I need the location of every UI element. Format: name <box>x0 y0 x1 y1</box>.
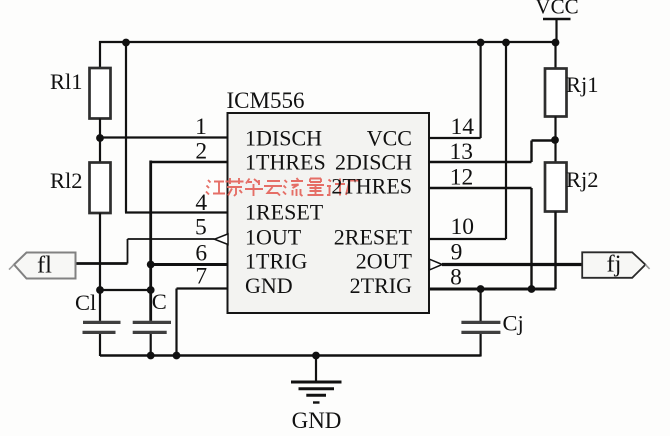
wire pin 10 2RESET <box>429 238 506 240</box>
wire pin10 vertical to rail <box>505 42 507 239</box>
label Cj <box>503 311 524 336</box>
junction dot rail/pin4 <box>122 39 130 47</box>
pin number 12 <box>450 165 474 191</box>
svg-text:1THRES: 1THRES <box>245 150 326 175</box>
wire top VCC rail <box>99 41 557 43</box>
IC U1 ICM556 body <box>228 113 430 313</box>
svg-text:13: 13 <box>450 139 474 165</box>
计 <box>327 179 345 196</box>
svg-text:2DISCH: 2DISCH <box>335 150 412 175</box>
wire pin 6 1TRIG <box>151 263 228 266</box>
pin number 5 <box>195 215 207 241</box>
wire pin 5 1OUT <box>128 238 215 240</box>
流 <box>283 178 303 196</box>
wire pin 13 2DISCH <box>429 161 532 163</box>
junction dot pin7/bottom rail <box>173 352 181 360</box>
wire left branch upper <box>99 41 101 68</box>
wire pin 8 2TRIG <box>429 288 556 291</box>
junction dot VCC rail <box>552 39 560 47</box>
svg-text:Rl2: Rl2 <box>50 168 83 193</box>
svg-text:7: 7 <box>195 264 207 290</box>
wire pin12 vertical down <box>530 188 532 289</box>
svg-text:8: 8 <box>450 264 462 290</box>
junction dot GND symbol/bottom rail <box>312 352 320 360</box>
wire pin 4 1RESET <box>125 211 228 213</box>
svg-text:GND: GND <box>292 408 342 433</box>
华 <box>245 179 263 197</box>
pin number 7 <box>195 264 207 290</box>
svg-text:GND: GND <box>245 273 293 298</box>
wire pin 9 2OUT to fj <box>442 263 583 266</box>
label Rl2 <box>50 168 83 193</box>
junction dot C/bottom rail <box>147 352 155 360</box>
svg-text:Rj2: Rj2 <box>566 167 599 192</box>
power VCC symbol <box>535 0 578 42</box>
svg-text:1RESET: 1RESET <box>245 200 324 225</box>
svg-text:C: C <box>152 289 167 314</box>
svg-text:1TRIG: 1TRIG <box>245 249 307 274</box>
junction dot pin12/pin8 <box>528 285 536 293</box>
label Cl <box>75 290 96 315</box>
pin label 1OUT <box>245 225 302 250</box>
svg-text:2RESET: 2RESET <box>334 225 413 250</box>
wire pin13 jog horizontal <box>532 139 556 141</box>
pin label 2TRIG <box>350 273 412 298</box>
port flag fl <box>9 252 76 279</box>
svg-text:1DISCH: 1DISCH <box>245 126 322 151</box>
label Rj1 <box>566 72 599 97</box>
svg-text:Rl1: Rl1 <box>50 69 83 94</box>
wire jumper node B to node C <box>100 289 151 291</box>
wire pin 4 vertical from rail <box>125 42 127 213</box>
wire Rl1 to Rl2 <box>99 119 101 163</box>
pin number 4 <box>195 190 207 216</box>
wire THRES/TRIG vertical to C <box>149 161 152 321</box>
wire pin 7 GND <box>177 287 229 289</box>
云 <box>264 181 282 196</box>
capacitor C <box>133 322 171 356</box>
junction dot node A (Rl1/Rl2/1DISCH) <box>96 134 104 142</box>
port flag fj <box>582 251 649 278</box>
svg-text:2THRES: 2THRES <box>331 174 412 199</box>
wire pin 2 1THRES <box>151 161 228 163</box>
svg-text:1OUT: 1OUT <box>245 225 302 250</box>
junction dot rail/pin10 <box>502 39 510 47</box>
wire pin 1 1DISCH <box>100 136 228 138</box>
junction dot node C jumper <box>147 286 155 294</box>
junction dot node B (Rl2/Cl/jumper) <box>96 286 104 294</box>
量 <box>307 179 324 196</box>
wire fl lead <box>76 262 128 265</box>
pin number 2 <box>195 139 207 165</box>
svg-text:2: 2 <box>195 139 207 165</box>
pin label GND <box>245 273 293 298</box>
wire bottom ground rail <box>100 354 481 356</box>
junction dot Rj1/Rj2/2DISCH <box>551 136 559 144</box>
label Rl1 <box>50 69 83 94</box>
svg-text:14: 14 <box>451 114 475 140</box>
svg-text:Cl: Cl <box>75 290 96 315</box>
svg-text:VCC: VCC <box>535 0 578 19</box>
svg-text:fl: fl <box>37 252 52 279</box>
svg-text:VCC: VCC <box>367 126 412 151</box>
svg-text:4: 4 <box>195 190 207 216</box>
resistor Rj2 <box>545 163 567 290</box>
wire Rl2 down to Cl <box>99 213 101 321</box>
svg-text:Rj1: Rj1 <box>566 72 599 97</box>
svg-text:12: 12 <box>450 165 474 191</box>
wire pin 14 VCC <box>429 137 481 139</box>
svg-text:ICM556: ICM556 <box>227 88 305 113</box>
capacitor Cj <box>461 289 500 357</box>
pin number 1 <box>195 114 207 140</box>
pin number 13 <box>450 139 474 165</box>
svg-text:9: 9 <box>451 240 463 266</box>
label C <box>152 289 167 314</box>
pin label 1RESET <box>245 200 324 225</box>
label GND <box>292 408 342 433</box>
wire pin14 vertical to rail <box>480 42 482 138</box>
capacitor Cl <box>83 322 121 356</box>
wire pin 12 2THRES <box>429 187 532 189</box>
svg-text:2TRIG: 2TRIG <box>350 273 412 298</box>
pin number 6 <box>195 240 207 266</box>
svg-text:10: 10 <box>450 214 474 240</box>
pin label VCC <box>367 126 412 151</box>
pin label 2RESET <box>334 225 413 250</box>
江 <box>206 180 225 195</box>
resistor Rl2 <box>90 163 111 214</box>
pin label 2THRES <box>331 174 412 199</box>
svg-text:5: 5 <box>195 215 207 241</box>
wire pin7 vertical <box>175 289 177 357</box>
label Rj2 <box>566 167 599 192</box>
junction dot Cj/pin8 <box>477 285 485 293</box>
pin label 1THRES <box>245 150 326 175</box>
pin label 1DISCH <box>245 126 322 151</box>
resistor Rj1 <box>545 42 567 163</box>
junction dot node C trig <box>147 261 155 269</box>
pin number 9 <box>451 240 463 266</box>
watermark 江苏华云流量计厂 <box>206 178 360 196</box>
triangle pin 5 output <box>215 234 229 245</box>
triangle pin 9 output <box>430 259 443 270</box>
pin number 10 <box>450 214 474 240</box>
junction dot rail/pin14 <box>477 39 485 47</box>
wire 1OUT down <box>127 239 129 264</box>
svg-text:2OUT: 2OUT <box>356 249 413 274</box>
pin label 1TRIG <box>245 249 307 274</box>
pin number 14 <box>451 114 475 140</box>
svg-text:6: 6 <box>195 240 207 266</box>
resistor Rl1 <box>90 68 111 119</box>
厂 <box>346 181 360 196</box>
svg-text:1: 1 <box>195 114 207 140</box>
svg-text:Cj: Cj <box>503 311 524 336</box>
苏 <box>226 178 244 196</box>
pin label 2DISCH <box>335 150 412 175</box>
wire pin13 jog vertical <box>530 141 532 163</box>
label ICM556 title <box>227 88 305 113</box>
ground symbol <box>291 356 342 403</box>
pin label 2OUT <box>356 249 413 274</box>
svg-text:fj: fj <box>607 251 622 278</box>
pin number 8 <box>450 264 462 290</box>
